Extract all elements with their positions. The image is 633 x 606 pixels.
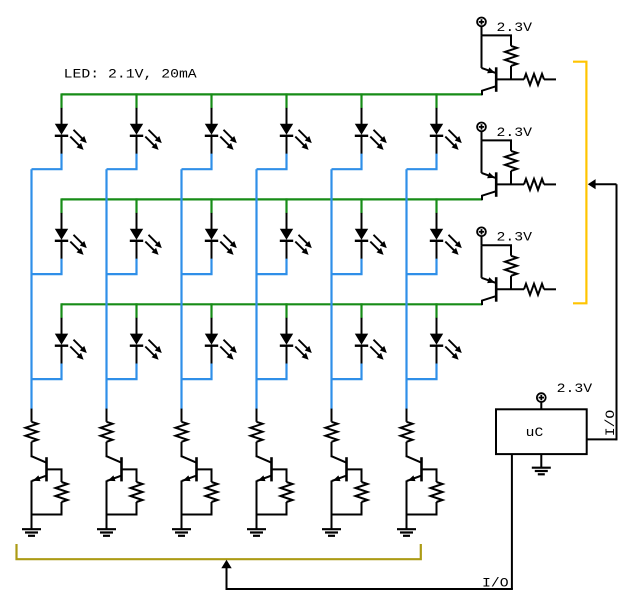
wire column 6 cathode bus (blue): [405, 169, 407, 409]
wire cathode D14 to column: [257, 154, 287, 170]
LED D16: [430, 124, 462, 155]
LED D15: [355, 124, 387, 155]
svg-text:uC: uC: [526, 425, 544, 440]
wire cathode D33 to column: [182, 364, 212, 380]
wire anode stub D31: [60, 303, 62, 334]
bus bracket row I/O (orange): [573, 62, 586, 304]
wire anode stub D16: [435, 93, 437, 124]
wire column 3 to resistor: [181, 409, 183, 422]
transistor Q row 2 (PNP) emitter: [482, 140, 496, 178]
wire base column 1: [47, 469, 62, 482]
resistor pull-up row 2: [505, 151, 517, 185]
transistor Q column 1 (NPN) collector: [32, 456, 47, 463]
transistor Q column 3 (NPN) collector: [182, 456, 197, 463]
wire cathode D32 to column: [107, 364, 137, 380]
LED D14: [280, 124, 312, 155]
wire cathode D31 to column: [32, 364, 62, 380]
wire cathode D36 to column: [407, 364, 437, 380]
LED D34: [280, 334, 312, 365]
wire cathode D24 to column: [257, 259, 287, 275]
LED D21: [55, 229, 87, 260]
resistor pull-up row 1: [505, 46, 517, 80]
LED D33: [205, 334, 237, 365]
wire anode stub D34: [285, 303, 287, 334]
resistor base row 2: [524, 179, 556, 190]
LED D25: [355, 229, 387, 260]
transistor Q row 3 (PNP) bar: [495, 277, 498, 302]
ground column 6: [397, 529, 416, 536]
transistor Q row 2 (PNP) collector: [482, 191, 496, 200]
wire anode stub D33: [210, 303, 212, 334]
resistor column 1 limit: [26, 422, 38, 457]
wire column 1 cathode bus (blue): [30, 169, 32, 409]
wire anode stub D25: [360, 198, 362, 229]
transistor Q column 3 (NPN) bar: [195, 457, 198, 481]
label I/O right: [603, 409, 618, 436]
svg-text:2.3V: 2.3V: [497, 125, 533, 140]
wire anode stub D21: [60, 198, 62, 229]
resistor base row 3: [524, 284, 556, 295]
wire column 6 to resistor: [406, 409, 408, 422]
transistor Q column 1 (NPN) emitter: [32, 475, 47, 529]
wire base row 1: [496, 78, 524, 80]
power +2.3V row 1 driver: [477, 18, 486, 36]
wire cathode D26 to column: [407, 259, 437, 275]
wire uC I/O to row drivers: [587, 179, 617, 440]
transistor Q row 2 (PNP) bar: [495, 172, 498, 197]
transistor Q column 2 (NPN) bar: [120, 457, 123, 481]
transistor Q column 5 (NPN) collector: [332, 456, 347, 463]
label uC: [526, 425, 544, 440]
wire cathode D25 to column: [332, 259, 362, 275]
ground column 2: [97, 529, 116, 536]
wire anode stub D36: [435, 303, 437, 334]
wire base row 3: [496, 288, 524, 290]
power +2.3V row 3 driver: [477, 227, 486, 245]
wire anode stub D24: [285, 198, 287, 229]
wire anode stub D32: [135, 303, 137, 334]
wire cathode D21 to column: [32, 259, 62, 275]
LED D23: [205, 229, 237, 260]
transistor Q column 6 (NPN) bar: [420, 457, 423, 481]
resistor base column 1: [32, 482, 68, 515]
ground column 4: [247, 529, 266, 536]
wire column 4 cathode bus (blue): [255, 169, 257, 409]
transistor Q column 4 (NPN) bar: [270, 457, 273, 481]
wire cathode D34 to column: [257, 364, 287, 380]
wire supply tee row 3: [482, 245, 512, 256]
transistor Q row 1 (PNP) emitter: [482, 35, 496, 73]
transistor Q column 5 (NPN) bar: [345, 457, 348, 481]
resistor base row 1: [524, 74, 556, 85]
wire anode stub D14: [285, 93, 287, 124]
wire anode stub D15: [360, 93, 362, 124]
wire base column 5: [347, 469, 362, 482]
wire cathode D11 to column: [32, 154, 62, 170]
wire column 2 to resistor: [106, 409, 108, 422]
LED D11: [55, 124, 87, 155]
power +2.3V uC: [537, 393, 546, 409]
power +2.3V row 2 driver: [477, 123, 486, 141]
label 2.3V row 2: [497, 125, 533, 140]
wire cathode D15 to column: [332, 154, 362, 170]
wire anode stub D22: [135, 198, 137, 229]
label 2.3V row 1: [497, 20, 533, 35]
wire column 5 cathode bus (blue): [330, 169, 332, 409]
wire uC I/O to column drivers: [221, 454, 513, 590]
LED D22: [130, 229, 162, 260]
wire base column 3: [197, 469, 212, 482]
wire cathode D12 to column: [107, 154, 137, 170]
svg-text:2.3V: 2.3V: [497, 230, 533, 245]
transistor Q column 6 (NPN) collector: [407, 456, 422, 463]
wire cathode D16 to column: [407, 154, 437, 170]
transistor Q column 2 (NPN) emitter: [107, 475, 122, 529]
resistor base column 2: [107, 482, 143, 515]
resistor base column 5: [332, 482, 368, 515]
resistor column 6 limit: [401, 422, 413, 457]
wire cathode D23 to column: [182, 259, 212, 275]
svg-text:I/O: I/O: [482, 576, 509, 591]
LED D35: [355, 334, 387, 365]
transistor Q column 1 (NPN) bar: [45, 457, 48, 481]
wire anode stub D12: [135, 93, 137, 124]
label LED spec: [64, 66, 197, 81]
bus bracket column I/O (olive): [17, 544, 421, 559]
LED D26: [430, 229, 462, 260]
resistor base column 6: [407, 482, 443, 515]
resistor base column 3: [182, 482, 218, 515]
transistor Q row 1 (PNP) collector: [482, 86, 496, 95]
transistor Q column 3 (NPN) emitter: [182, 475, 197, 529]
wire column 4 to resistor: [256, 409, 258, 422]
resistor pull-up row 3: [505, 256, 517, 289]
wire base column 4: [272, 469, 287, 482]
wire base column 6: [422, 469, 437, 482]
wire anode stub D13: [210, 93, 212, 124]
ground uC: [532, 454, 551, 474]
wire anode stub D35: [360, 303, 362, 334]
label 2.3V row 3: [497, 230, 533, 245]
ground column 3: [172, 529, 191, 536]
wire column 3 cathode bus (blue): [180, 169, 182, 409]
label 2.3V uC: [557, 381, 593, 396]
ground column 1: [22, 529, 41, 536]
label I/O bottom: [482, 576, 509, 591]
resistor column 3 limit: [176, 422, 188, 457]
svg-text:I/O: I/O: [603, 409, 618, 436]
wire cathode D35 to column: [332, 364, 362, 380]
transistor Q row 1 (PNP) bar: [495, 67, 498, 92]
resistor column 5 limit: [326, 422, 338, 457]
LED D31: [55, 334, 87, 365]
LED D24: [280, 229, 312, 260]
transistor Q column 4 (NPN) emitter: [257, 475, 272, 529]
transistor Q column 6 (NPN) emitter: [407, 475, 422, 529]
transistor Q column 2 (NPN) collector: [107, 456, 122, 463]
LED D32: [130, 334, 162, 365]
LED D36: [430, 334, 462, 365]
wire anode stub D23: [210, 198, 212, 229]
wire column 1 to resistor: [31, 409, 33, 422]
transistor Q row 3 (PNP) emitter: [482, 245, 496, 283]
resistor column 2 limit: [101, 422, 113, 457]
wire anode stub D11: [60, 93, 62, 124]
wire column 2 cathode bus (blue): [105, 169, 107, 409]
wire row 2 anode bus (green): [62, 198, 483, 200]
wire cathode D13 to column: [182, 154, 212, 170]
transistor Q column 4 (NPN) collector: [257, 456, 272, 463]
transistor Q row 3 (PNP) collector: [482, 296, 496, 305]
ground column 5: [322, 529, 341, 536]
LED D13: [205, 124, 237, 155]
wire cathode D22 to column: [107, 259, 137, 275]
wire supply tee row 2: [482, 140, 512, 151]
wire row 1 anode bus (green): [62, 93, 483, 95]
transistor Q column 5 (NPN) emitter: [332, 475, 347, 529]
svg-text:LED: 2.1V, 20mA: LED: 2.1V, 20mA: [64, 66, 197, 81]
microcontroller uC box: [496, 409, 587, 454]
svg-text:2.3V: 2.3V: [557, 381, 593, 396]
resistor column 4 limit: [251, 422, 263, 457]
wire supply tee row 1: [482, 35, 512, 46]
wire column 5 to resistor: [331, 409, 333, 422]
wire anode stub D26: [435, 198, 437, 229]
LED D12: [130, 124, 162, 155]
wire base column 2: [122, 469, 137, 482]
svg-text:2.3V: 2.3V: [497, 20, 533, 35]
wire row 3 anode bus (green): [62, 303, 483, 305]
wire base row 2: [496, 183, 524, 185]
resistor base column 4: [257, 482, 293, 515]
